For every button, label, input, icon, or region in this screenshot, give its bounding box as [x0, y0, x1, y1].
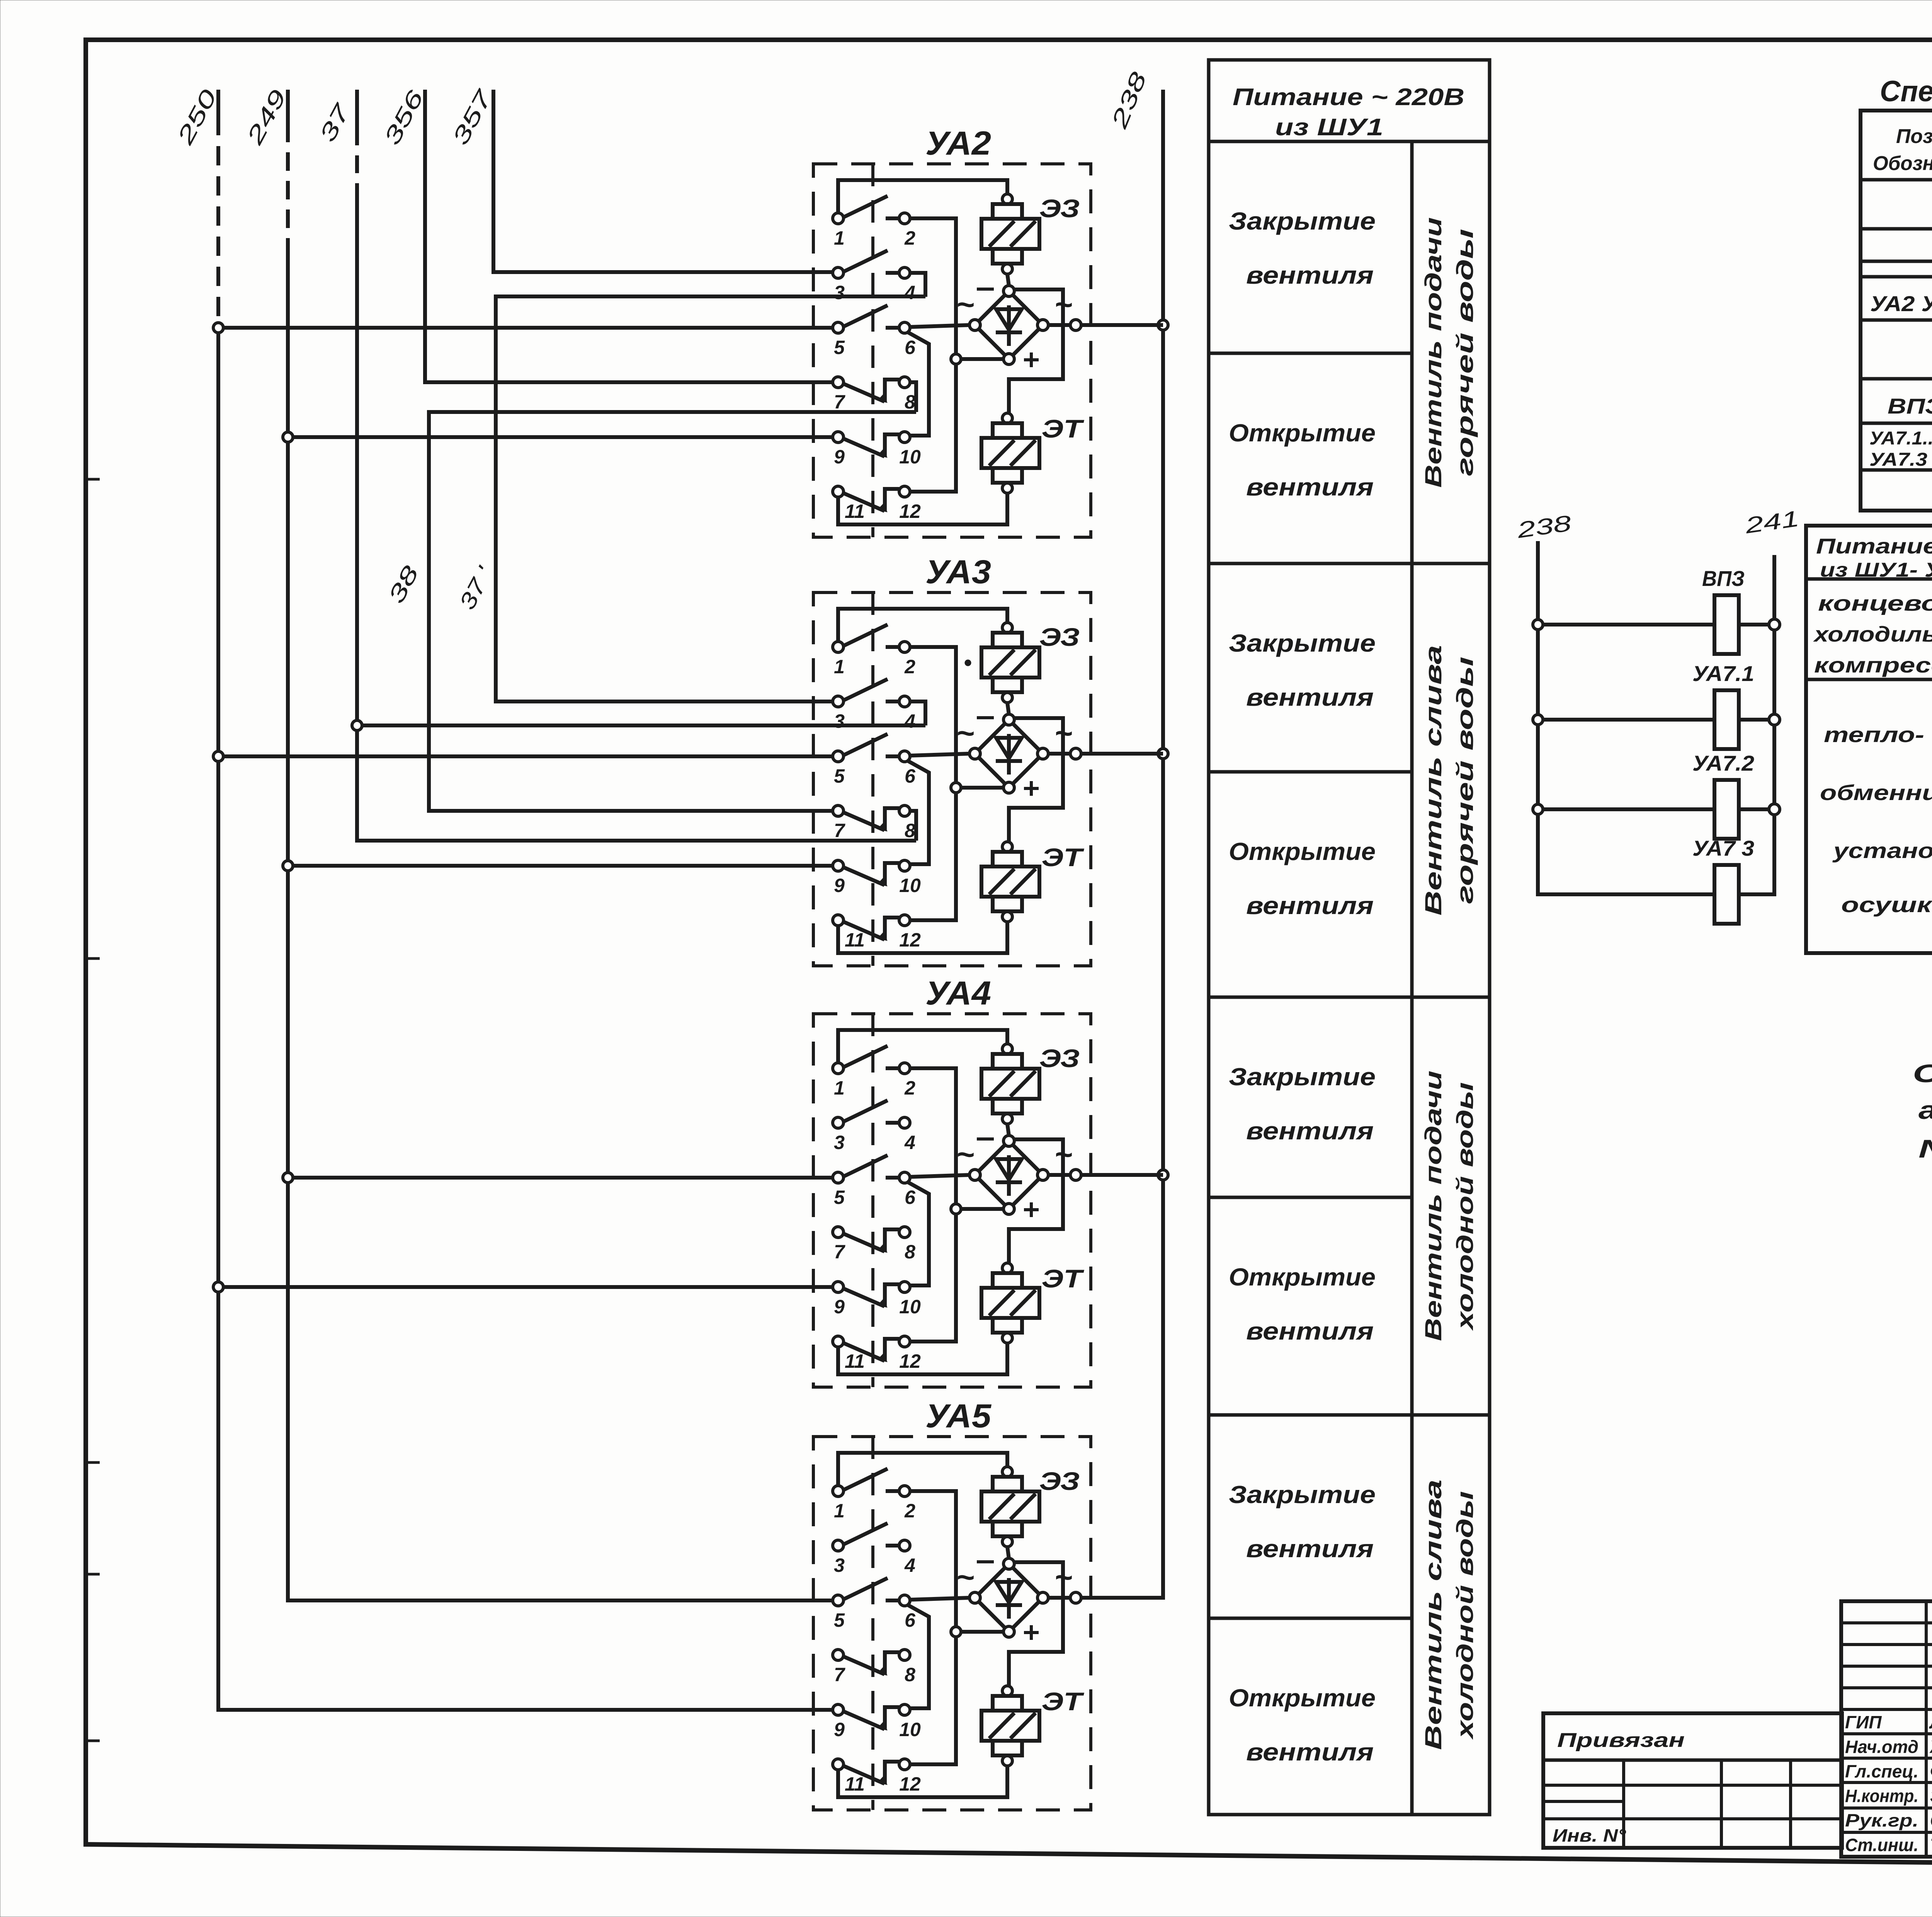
rotated label Вентиль подачи холодной воды	[1420, 1071, 1478, 1341]
УА2 rectifier bridge	[956, 286, 1073, 367]
svg-text:вентиля: вентиля	[1246, 683, 1374, 711]
signature row ГИП Леонов	[1845, 1712, 1932, 1732]
label 37'	[454, 562, 498, 614]
svg-text:горячей воды: горячей воды	[1452, 229, 1478, 476]
svg-text:9: 9	[834, 1296, 845, 1318]
svg-text:УА7.1...: УА7.1...	[1869, 428, 1932, 449]
node 249 to УА3 contact9 wire	[293, 864, 833, 868]
caption cell Закрытие вентиля 3	[1229, 629, 1376, 711]
svg-text:11: 11	[845, 1773, 865, 1795]
caption cell Открытие вентиля 2	[1229, 419, 1376, 501]
svg-text:ЭТ: ЭТ	[1042, 1264, 1085, 1293]
УА5 wire contact1 to ЭЗ	[838, 1453, 1007, 1486]
УА2 opening solenoid ЭТ	[981, 413, 1084, 493]
svg-text:ЭЗ: ЭЗ	[1039, 1044, 1080, 1073]
purge valve solenoid УА7.1	[1543, 661, 1780, 749]
svg-text:Вентиль подачи: Вентиль подачи	[1420, 1071, 1446, 1341]
caption cell Закрытие вентиля 7	[1229, 1481, 1376, 1563]
label Привязан	[1557, 1729, 1685, 1752]
УА2 contact 1-2	[833, 196, 915, 249]
svg-text:Рук.гр.: Рук.гр.	[1845, 1810, 1918, 1830]
УА4 wire ЭЗ to bridge minus	[1007, 1124, 1009, 1136]
УА5 contact 1-2	[833, 1469, 915, 1522]
svg-text:Золотарева: Золотарева	[1930, 1786, 1932, 1806]
svg-text:Седых: Седых	[1930, 1810, 1932, 1830]
УА5 contact 3-4	[833, 1523, 915, 1576]
svg-text:Вентиль слива: Вентиль слива	[1420, 645, 1446, 916]
spec row ВПЗ Вентиль электромагнитный гической	[1888, 393, 1932, 420]
УА4 contact 9-10	[833, 1282, 921, 1318]
specification title	[1880, 75, 1932, 108]
svg-text:2: 2	[904, 1500, 915, 1522]
valve unit УА2 dashed enclosure	[813, 164, 1091, 537]
svg-text:7: 7	[834, 820, 845, 841]
purge valve solenoid УА7 3	[1692, 836, 1754, 924]
УА5 wire bridge output to bus	[1048, 1592, 1163, 1603]
svg-text:11: 11	[845, 501, 865, 522]
svg-text:Питание ~ 220В: Питание ~ 220В	[1233, 84, 1464, 111]
svg-text:Закрытие: Закрытие	[1229, 1481, 1376, 1508]
УА3 opening solenoid ЭТ	[981, 842, 1084, 922]
УА3 contact 11-12	[833, 915, 921, 951]
wire 357	[493, 90, 833, 272]
svg-text:УА2: УА2	[925, 125, 991, 162]
svg-text:ЭТ: ЭТ	[1042, 414, 1085, 443]
УА2 wire contact6 to bridge	[910, 325, 969, 327]
УА2 wire contact2 to bridge plus and contact12	[910, 218, 1003, 492]
dot mark near УА3 ЭЗ	[965, 660, 971, 666]
svg-text:12: 12	[899, 929, 921, 951]
svg-text:~: ~	[956, 716, 975, 750]
svg-text:10: 10	[899, 875, 921, 896]
specification table grid	[1861, 111, 1932, 511]
УА3 wire bridge output to bus	[1048, 748, 1163, 759]
label УА2	[925, 125, 991, 162]
svg-text:Открытие: Открытие	[1229, 838, 1376, 865]
valve unit УА3 dashed enclosure	[813, 592, 1091, 966]
purge valve solenoid ВПЗ	[1543, 566, 1780, 654]
svg-text:ЭЗ: ЭЗ	[1039, 1467, 1080, 1495]
УА4 closing solenoid ЭЗ	[981, 1044, 1080, 1124]
signature row Н.контр. Золотарева	[1845, 1786, 1932, 1806]
svg-text:горячей воды: горячей воды	[1452, 657, 1478, 904]
УА5 wire contact6 to bridge	[910, 1598, 969, 1600]
svg-text:установки: установки	[1832, 838, 1932, 863]
УА2 wire bridge output to bus	[1048, 320, 1163, 330]
УА2 contact 5-6	[833, 305, 916, 358]
svg-text:12: 12	[899, 501, 921, 522]
svg-text:8: 8	[905, 1241, 915, 1263]
svg-text:УА7.1: УА7.1	[1692, 661, 1754, 686]
net label 238 branch	[1515, 511, 1573, 543]
УА5 wire contact6 to contact10	[908, 1605, 929, 1708]
УА3 wire contact11 to ЭТ	[838, 922, 1007, 953]
svg-text:6: 6	[905, 1187, 916, 1208]
УА4 contact 7-8	[833, 1227, 915, 1263]
УА5 contact 5-6	[833, 1578, 916, 1631]
УА2 contact8 stub wire	[910, 382, 916, 412]
svg-text:9: 9	[834, 875, 845, 896]
svg-text:~: ~	[956, 1560, 975, 1594]
УА4 wire contact11 to ЭТ	[838, 1343, 1007, 1374]
svg-text:7: 7	[834, 391, 845, 413]
svg-text:2: 2	[904, 656, 915, 678]
svg-text:3: 3	[834, 710, 845, 732]
svg-text:1: 1	[834, 1500, 845, 1522]
label 38	[383, 562, 423, 608]
svg-text:вентиля: вентиля	[1246, 1738, 1374, 1766]
УА2 contact 9-10	[833, 432, 921, 468]
УА4 contact 11-12	[833, 1336, 921, 1372]
wire 249 vertical bus	[283, 90, 833, 1600]
svg-text:3: 3	[834, 282, 845, 303]
node 249 to УА4 contact5 wire	[293, 1176, 833, 1180]
УА3 wire ЭЗ to bridge minus	[1007, 703, 1009, 714]
УА3 internal dashed divider	[871, 592, 874, 966]
svg-text:9: 9	[834, 446, 845, 468]
svg-text:9: 9	[834, 1719, 845, 1740]
УА4 wire bridge minus loop to ЭТ	[1009, 1139, 1063, 1263]
svg-text:Вентиль подачи: Вентиль подачи	[1420, 217, 1446, 488]
svg-text:Закрытие: Закрытие	[1229, 207, 1376, 235]
svg-text:3: 3	[834, 1132, 845, 1153]
caption cell Открытие вентиля 6	[1229, 1263, 1376, 1345]
label УА5	[925, 1398, 992, 1435]
svg-text:8: 8	[905, 391, 915, 413]
svg-text:вентиля: вентиля	[1246, 473, 1374, 501]
svg-text:обменников: обменников	[1820, 780, 1932, 805]
svg-text:~: ~	[956, 287, 975, 322]
УА4 rectifier bridge	[956, 1136, 1073, 1217]
svg-text:вентиля: вентиля	[1246, 1317, 1374, 1345]
УА2 closing solenoid ЭЗ	[981, 194, 1080, 274]
svg-text:агрегата N1, для компресс: агрегата N1, для компрессорных агрегатов	[1918, 1096, 1932, 1124]
УА2 contact 11-12	[833, 486, 921, 522]
purge valve solenoid УА7.2	[1543, 751, 1780, 839]
valve unit УА5 dashed enclosure	[813, 1437, 1091, 1810]
УА2 contact 7-8	[833, 377, 915, 413]
УА2 wire bridge minus loop to ЭТ	[1009, 289, 1063, 413]
УА5 contact 9-10	[833, 1704, 921, 1740]
УА3 wire contact2 to bridge plus and contact12	[910, 647, 1003, 920]
svg-text:УА4: УА4	[925, 975, 991, 1012]
svg-text:ВПЗ: ВПЗ	[1888, 394, 1932, 418]
svg-text:ЭЗ: ЭЗ	[1039, 623, 1080, 651]
wire 238 vertical bus	[1081, 90, 1168, 1598]
svg-text:12: 12	[899, 1350, 921, 1372]
caption table header Питание 220В из ШУ1	[1233, 84, 1464, 141]
svg-text:из ШУ1: из ШУ1	[1275, 114, 1383, 141]
svg-text:~: ~	[956, 1137, 975, 1171]
svg-text:N2... N 4(3) схема аналоги: N2... N 4(3) схема аналогична	[1918, 1134, 1932, 1163]
svg-text:холодной воды: холодной воды	[1452, 1491, 1478, 1740]
УА3 wire bridge minus loop to ЭТ	[1009, 718, 1063, 842]
signature row Нач.отд Христофоров	[1845, 1737, 1932, 1757]
УА2 wire ЭЗ to bridge minus	[1007, 274, 1009, 286]
УА4 wire contact6 to contact10	[908, 1182, 929, 1285]
УА5 wire bridge minus loop to ЭТ	[1009, 1562, 1063, 1686]
УА4 contact 1-2	[833, 1046, 915, 1099]
purge caption концевого холодильника компрессора	[1813, 591, 1932, 677]
svg-text:6: 6	[905, 765, 916, 787]
svg-text:10: 10	[899, 1296, 921, 1318]
УА3 contact 7-8	[833, 805, 915, 841]
svg-text:осушки: осушки	[1841, 892, 1932, 917]
svg-text:4: 4	[904, 1132, 915, 1153]
УА3 contact4 stub wire	[910, 701, 925, 725]
label 356	[379, 86, 429, 149]
svg-text:Гл.спец.: Гл.спец.	[1845, 1761, 1918, 1781]
label 357	[447, 85, 498, 149]
svg-text:ЭТ: ЭТ	[1042, 1687, 1085, 1716]
svg-text:Инв. N°: Инв. N°	[1553, 1825, 1626, 1845]
node 37 to УА3 contact4 wire	[362, 724, 925, 727]
wire 37 vertical bus	[352, 90, 916, 841]
svg-text:6: 6	[905, 337, 916, 358]
svg-text:3: 3	[834, 1554, 845, 1576]
svg-text:концевого: концевого	[1818, 591, 1932, 615]
svg-text:УА3: УА3	[925, 553, 991, 591]
УА3 rectifier bridge	[956, 714, 1073, 796]
net label 241	[1743, 506, 1801, 538]
УА2 internal dashed divider	[871, 164, 874, 537]
svg-text:Питание ~ 220В: Питание ~ 220В	[1816, 534, 1932, 558]
svg-text:Фукс: Фукс	[1930, 1761, 1932, 1781]
svg-text:1: 1	[834, 227, 845, 249]
valve unit УА4 dashed enclosure	[813, 1014, 1091, 1387]
УА5 internal dashed divider	[871, 1437, 874, 1810]
svg-text:12: 12	[899, 1773, 921, 1795]
svg-text:2: 2	[904, 1077, 915, 1099]
svg-text:вентиля: вентиля	[1246, 261, 1374, 289]
svg-text:Открытие: Открытие	[1229, 1263, 1376, 1291]
УА5 contact 11-12	[833, 1759, 921, 1795]
frame centering tick marks	[86, 479, 100, 1741]
УА5 wire contact11 to ЭТ	[838, 1766, 1007, 1797]
wire 250 vertical bus	[213, 90, 833, 1710]
node 250 to УА3 contact5 wire	[223, 754, 833, 758]
svg-text:ГИП: ГИП	[1845, 1712, 1882, 1732]
svg-text:Обознач.: Обознач.	[1873, 152, 1932, 175]
svg-text:вентиля: вентиля	[1246, 1535, 1374, 1563]
УА3 contact 3-4	[833, 679, 915, 732]
label 250	[172, 85, 222, 149]
svg-text:2: 2	[904, 227, 915, 249]
node 250 to УА4 contact9 wire	[223, 1285, 833, 1289]
УА3 wire contact6 to bridge	[910, 754, 969, 756]
svg-text:1: 1	[834, 656, 845, 678]
svg-text:Привязан: Привязан	[1557, 1729, 1685, 1752]
purge caption box	[1806, 526, 1932, 953]
svg-text:4: 4	[904, 282, 915, 303]
wire 241 vertical	[1739, 555, 1774, 894]
УА4 internal dashed divider	[871, 1014, 874, 1387]
svg-text:из ШУ1- УКАС - АМ: из ШУ1- УКАС - АМ	[1820, 559, 1932, 581]
caption cell Закрытие вентиля 1	[1229, 207, 1376, 289]
spec row УА7.1 УА7.3 15кч888рСВМ 4 части проекта	[1869, 427, 1932, 471]
caption cell Открытие вентиля 4	[1229, 838, 1376, 919]
title block signature table	[1841, 1601, 1932, 1857]
signature row Рук.гр. Седых	[1845, 1810, 1932, 1830]
svg-text:компрессора: компрессора	[1814, 653, 1932, 677]
УА5 closing solenoid ЭЗ	[981, 1467, 1080, 1547]
node 249 to УА2 contact9 wire	[293, 435, 833, 439]
wire 38 УА2 contact8 to УА3 contact7	[429, 412, 916, 811]
УА4 contact 3-4	[833, 1100, 915, 1153]
svg-text:ВПЗ: ВПЗ	[1702, 566, 1745, 591]
svg-text:Ст.инш.: Ст.инш.	[1845, 1835, 1918, 1855]
svg-text:вентиля: вентиля	[1246, 1117, 1374, 1145]
УА2 contact 3-4	[833, 250, 915, 303]
signature row Ст.инш. Таболина	[1845, 1835, 1932, 1855]
svg-text:5: 5	[834, 765, 845, 787]
node 250 to УА2 contact5 wire	[223, 326, 833, 330]
svg-text:Схема выполнена для комп: Схема выполнена для компрессорного	[1913, 1059, 1932, 1088]
svg-text:УА7.3: УА7.3	[1869, 449, 1927, 470]
УА4 wire contact2 to bridge plus and contact12	[910, 1068, 1003, 1342]
svg-text:6: 6	[905, 1609, 916, 1631]
УА5 contact 7-8	[833, 1650, 915, 1685]
spec header Поз Обознач	[1873, 125, 1932, 175]
svg-text:10: 10	[899, 446, 921, 468]
svg-text:7: 7	[834, 1241, 845, 1263]
svg-text:10: 10	[899, 1719, 921, 1740]
УА3 contact 5-6	[833, 734, 916, 787]
svg-text:Открытие: Открытие	[1229, 1684, 1376, 1712]
svg-text:холодильника: холодильника	[1813, 622, 1932, 646]
rotated label Вентиль слива горячей воды	[1420, 645, 1478, 916]
binding table Привязан	[1543, 1713, 1842, 1848]
УА4 contact 5-6	[833, 1155, 916, 1208]
УА5 rectifier bridge	[956, 1558, 1073, 1640]
УА5 wire ЭЗ to bridge minus	[1007, 1547, 1009, 1558]
УА2 wire contact11 to ЭТ	[838, 494, 1007, 524]
label УА3	[925, 553, 991, 591]
wire 238 branch vertical	[1533, 541, 1714, 894]
svg-text:5: 5	[834, 1187, 845, 1208]
rotated label Вентиль подачи горячей воды	[1420, 217, 1478, 488]
svg-text:11: 11	[845, 929, 865, 951]
label УА4	[925, 975, 991, 1012]
УА3 wire contact6 to contact10	[908, 761, 929, 864]
УА3 closing solenoid ЭЗ	[981, 623, 1080, 703]
svg-text:Вентиль слива: Вентиль слива	[1420, 1479, 1446, 1750]
УА4 wire contact6 to bridge	[910, 1175, 969, 1177]
svg-text:ЭЗ: ЭЗ	[1039, 194, 1080, 223]
УА2 wire contact1 to ЭЗ	[838, 180, 1007, 213]
wire 37' УА2 contact4 to УА3 contact3	[496, 296, 925, 701]
svg-text:7: 7	[834, 1664, 845, 1685]
УА3 contact 1-2	[833, 625, 915, 678]
svg-text:11: 11	[845, 1350, 865, 1372]
svg-text:вентиля: вентиля	[1246, 892, 1374, 919]
signature row Гл.спец. Фукс	[1845, 1761, 1932, 1781]
svg-text:5: 5	[834, 1609, 845, 1631]
svg-text:УА7 3: УА7 3	[1692, 836, 1754, 860]
УА4 opening solenoid ЭТ	[981, 1263, 1084, 1343]
svg-text:УА2 УАб: УА2 УАб	[1870, 291, 1932, 316]
wire 356	[425, 90, 833, 382]
svg-text:Открытие: Открытие	[1229, 419, 1376, 447]
label 238 top	[1106, 68, 1151, 132]
svg-text:Закрытие: Закрытие	[1229, 1063, 1376, 1091]
svg-text:ЭТ: ЭТ	[1042, 843, 1085, 872]
УА4 wire bridge output to bus	[1048, 1170, 1163, 1180]
purge caption header Питание 220В из ШУ1-УКАС-АМ	[1816, 534, 1932, 581]
spec row УА2 УА6 Вентиль электромагнитный Заказаны	[1870, 290, 1932, 318]
svg-text:Закрытие: Закрытие	[1229, 629, 1376, 657]
svg-text:УА7.2: УА7.2	[1692, 751, 1754, 775]
rotated label Вентиль слива холодной воды	[1420, 1479, 1478, 1750]
label Инв номер	[1553, 1825, 1626, 1845]
caption cell Закрытие вентиля 5	[1229, 1063, 1376, 1145]
svg-text:Нач.отд: Нач.отд	[1845, 1737, 1918, 1757]
svg-text:Таболина: Таболина	[1930, 1835, 1932, 1855]
svg-text:4: 4	[904, 710, 915, 732]
УА3 wire contact1 to ЭЗ	[838, 609, 1007, 642]
label 249	[241, 85, 291, 149]
svg-text:5: 5	[834, 337, 845, 358]
УА2 contact4 stub wire	[910, 273, 925, 297]
УА5 opening solenoid ЭТ	[981, 1686, 1084, 1766]
caption cell Открытие вентиля 8	[1229, 1684, 1376, 1766]
svg-text:Спецификация принципиальной: Спецификация принципиальной электрическо…	[1880, 75, 1932, 108]
label 37	[315, 99, 355, 146]
note схема выполнена для компрессорного агрегата	[1913, 1059, 1932, 1163]
svg-text:Н.контр.: Н.контр.	[1845, 1786, 1918, 1806]
УА3 contact 9-10	[833, 860, 921, 896]
svg-text:тепло-: тепло-	[1824, 722, 1924, 747]
svg-text:8: 8	[905, 820, 915, 841]
УА2 wire contact6 to contact10	[908, 332, 929, 436]
svg-text:УА5: УА5	[925, 1398, 992, 1435]
svg-text:холодной воды: холодной воды	[1452, 1082, 1478, 1331]
svg-text:1: 1	[834, 1077, 845, 1099]
caption table frame	[1209, 60, 1490, 1815]
УА5 wire contact2 to bridge plus and contact12	[910, 1491, 1003, 1764]
УА3 contact8 stub wire	[910, 811, 916, 841]
svg-text:Поз.: Поз.	[1896, 125, 1932, 148]
svg-text:8: 8	[905, 1664, 915, 1685]
svg-text:4: 4	[904, 1554, 915, 1576]
purge caption тепло обменников установки осушки	[1820, 722, 1932, 917]
УА4 wire contact1 to ЭЗ	[838, 1030, 1007, 1063]
